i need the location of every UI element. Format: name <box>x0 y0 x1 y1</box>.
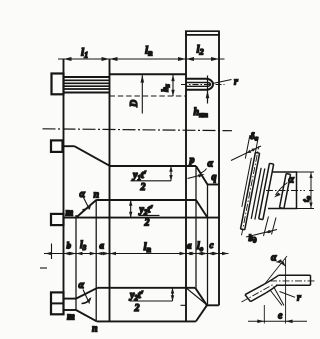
svg-text:y2t′: y2t′ <box>139 205 154 217</box>
svg-text:a: a <box>187 241 192 251</box>
wire column top double edge <box>185 31 220 35</box>
arrowheads lower dim <box>45 252 229 256</box>
inset2 left arm axis <box>242 284 274 302</box>
inset1 slanted tooth bars <box>237 145 295 242</box>
inset1 delta dimension line <box>231 146 261 161</box>
m-n rise slant <box>76 200 96 218</box>
inset1 t dimension <box>297 172 315 209</box>
wire column left edge x=186 <box>185 31 187 321</box>
svg-text:hкт: hкт <box>194 107 209 119</box>
wire body boundary vertical x=109.5 <box>109 59 111 321</box>
wire top dimension line l1/ln/l2 <box>58 58 225 60</box>
svg-text:2: 2 <box>144 218 150 229</box>
svg-text:α: α <box>80 189 86 200</box>
svg-text:b: b <box>67 241 72 251</box>
svg-text:2: 2 <box>140 182 146 193</box>
svg-text:ln: ln <box>144 241 152 254</box>
svg-text:α: α <box>289 175 295 186</box>
svg-text:n: n <box>92 324 98 335</box>
svg-text:l3: l3 <box>80 240 87 252</box>
shelf bottom fraction <box>130 300 173 302</box>
dimension y1t'/2 vertical arrow <box>170 166 172 181</box>
svg-text:l1: l1 <box>81 47 88 60</box>
inset2 fillet V legs <box>271 287 285 306</box>
row2 bottom line <box>64 217 220 219</box>
stub from cap 2 <box>63 145 75 147</box>
shelf for fraction y1 <box>131 180 172 182</box>
svg-text:c: c <box>210 240 214 250</box>
bevel step <box>207 304 219 306</box>
svg-text:r: r <box>297 293 301 304</box>
center axis dash-dot line <box>43 129 233 131</box>
tooth axis dash-dot <box>181 84 225 86</box>
bar top edge <box>98 287 196 289</box>
inset2 e dimension <box>263 305 265 324</box>
dimension y2t'/2 (middle) vertical arrow <box>130 200 132 218</box>
svg-text:l2: l2 <box>197 44 204 57</box>
inset1 alpha arc arrow <box>276 183 288 196</box>
svg-text:ln: ln <box>145 45 153 58</box>
small arc at alpha top right <box>201 169 207 174</box>
svg-text:D: D <box>129 100 140 108</box>
svg-text:lo: lo <box>197 241 204 253</box>
inset2 right arm axis <box>270 280 317 282</box>
inset2 outer bend curve <box>264 275 279 284</box>
svg-text:m: m <box>66 208 74 219</box>
bevel bottom diagonal <box>196 305 207 321</box>
hidden dashed line <box>110 95 187 97</box>
extension x=51.5 <box>51 244 53 260</box>
alpha arc middle <box>84 198 90 210</box>
svg-text:m: m <box>67 312 75 323</box>
vertical x=96 n extension <box>95 200 97 321</box>
cutting direction arrow at q <box>188 175 203 179</box>
inset1 slot rectangle <box>268 172 297 209</box>
inset2 slant extension <box>266 256 288 283</box>
vertical x=76 m extension <box>75 215 77 310</box>
row1 back line <box>110 165 197 167</box>
fraction bar y2 middle <box>139 214 160 216</box>
tooth with radius r in column <box>186 79 206 90</box>
node arrowheads top dim <box>64 57 220 61</box>
inset1 delta extension lines <box>245 135 258 160</box>
inset2 r leader <box>280 292 296 298</box>
alpha arc bottom <box>83 290 90 304</box>
lower dimension chain line <box>44 253 229 255</box>
wire left body edge vertical x=63.5 <box>63 59 65 315</box>
inset1 slot center dash-dot <box>266 190 314 192</box>
inset2 right arm <box>276 275 311 285</box>
bevel top diagonal <box>195 288 207 306</box>
bottom view: cap square 4 double <box>51 292 64 314</box>
svg-text:p: p <box>189 155 195 166</box>
slope down to first tooth row <box>74 146 109 166</box>
row1 step line <box>208 184 220 186</box>
vertical x=196 <box>195 166 197 288</box>
cap square 1 (shank head) <box>52 74 64 95</box>
body top edge <box>110 73 187 75</box>
svg-text:y2t′: y2t′ <box>129 290 144 302</box>
row2 face slant <box>196 200 208 218</box>
upper slant bottom view <box>76 288 98 299</box>
svg-text:δв: δв <box>250 131 258 143</box>
svg-text:α: α <box>79 280 85 291</box>
neck top <box>64 298 77 300</box>
svg-text:2: 2 <box>134 303 140 314</box>
inset1 b dimension line <box>246 230 277 238</box>
svg-text:a: a <box>100 241 105 251</box>
wire column right edge x=219 <box>218 31 220 305</box>
cap square 3 <box>51 214 64 225</box>
center line fragment bottom left <box>40 267 47 269</box>
svg-text:e: e <box>278 311 283 322</box>
cap square 2 <box>51 140 63 152</box>
svg-text:hz: hz <box>160 84 172 92</box>
svg-text:r: r <box>234 77 238 88</box>
svg-text:n: n <box>94 190 100 201</box>
dimension y2t'/2 (bottom) vertical arrow <box>172 288 174 301</box>
dimension h_kt vertical <box>207 76 209 104</box>
inset2 alpha arc <box>276 262 285 267</box>
stub left of column <box>181 304 187 306</box>
neck bottom <box>64 309 77 311</box>
bar bottom edge <box>97 320 196 322</box>
svg-text:y1t′: y1t′ <box>132 170 147 182</box>
svg-text:tо: tо <box>301 195 313 202</box>
svg-text:α: α <box>208 159 214 170</box>
lower slant bottom view <box>76 310 97 321</box>
inset2 left arm end cap <box>245 295 251 302</box>
row1 face slant (angle alpha) <box>196 166 208 185</box>
splined shaft section l1 <box>64 77 110 93</box>
leader r <box>213 80 232 84</box>
inset2 vertical reference line <box>285 259 287 324</box>
bevel extra diagonal <box>186 288 207 305</box>
dimension hz vertical with arrows <box>172 75 174 96</box>
inset2 left arm top edge <box>245 284 264 294</box>
inset2 inner fillet <box>266 285 277 293</box>
row2 back line from n <box>96 199 196 201</box>
vertical x=207.5 <box>207 185 209 306</box>
svg-text:q: q <box>212 172 217 183</box>
dimension D vertical with arrow <box>141 75 143 113</box>
svg-text:α: α <box>271 253 277 264</box>
inset2 left arm bottom edge <box>251 293 267 302</box>
